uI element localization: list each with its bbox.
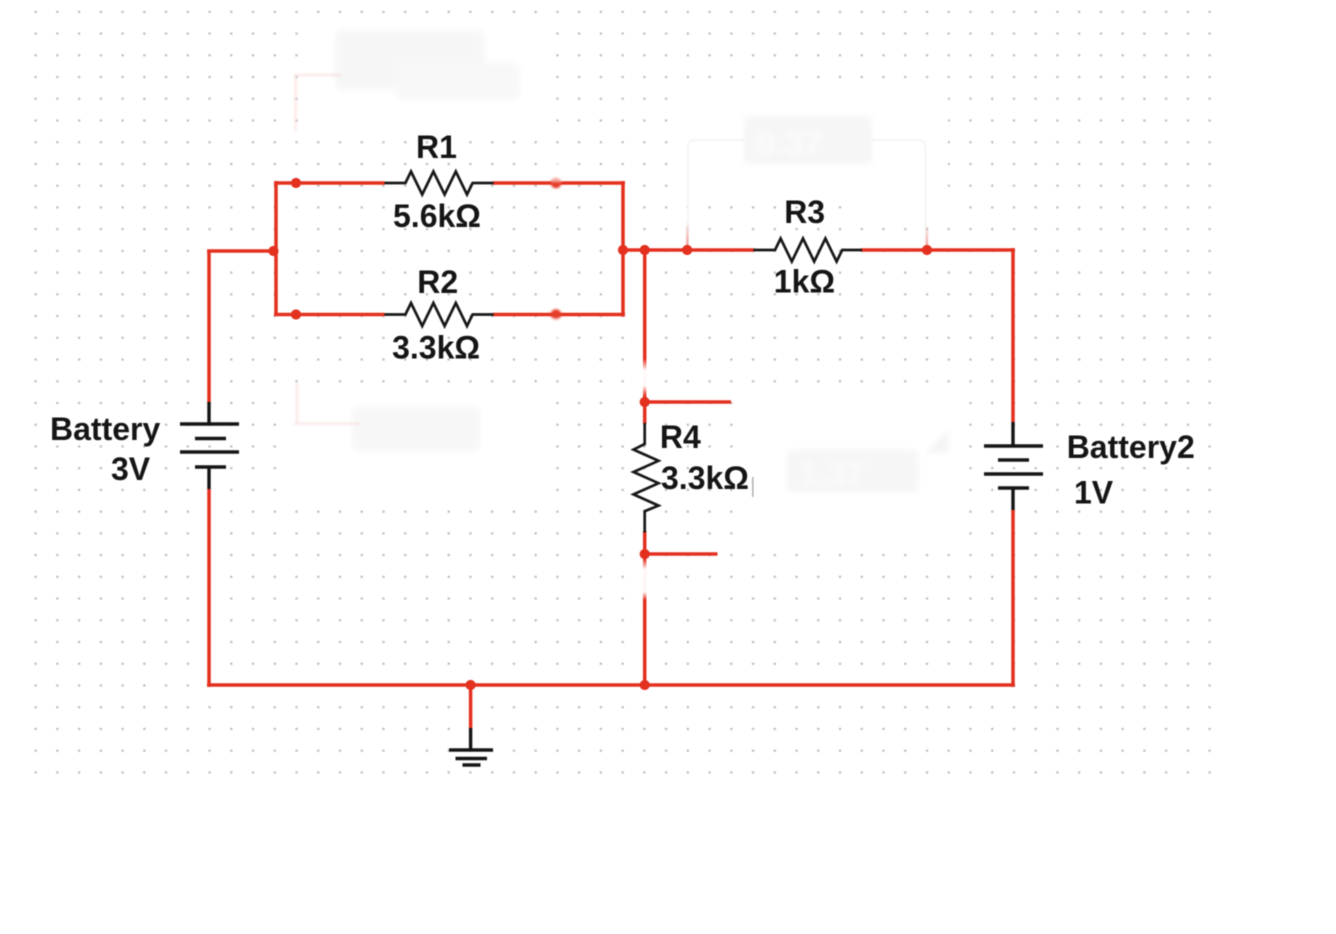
faded junction node R2 right	[551, 309, 562, 320]
ghost smudge 0.37 label	[744, 116, 872, 164]
wire bottom rail	[207, 683, 1015, 687]
ghost smudge mid-left	[352, 406, 480, 452]
erased-wire white streak below node R2 right	[551, 318, 562, 352]
wire R3 right to battery2	[861, 248, 1015, 252]
ground symbol	[449, 728, 493, 765]
resistor R2 body	[385, 303, 494, 326]
battery V1 symbol	[180, 402, 239, 489]
resistor R3 body	[753, 239, 862, 262]
ghost pink wire remnant top-left	[294, 75, 341, 131]
svg-text:1kΩ: 1kΩ	[774, 264, 835, 300]
resistor R1 body	[385, 172, 494, 195]
wire ground stub	[469, 685, 473, 729]
wire R1 left	[274, 181, 384, 185]
wire R4 lower red segment	[643, 531, 647, 554]
ghost wire stub above node right	[926, 224, 928, 246]
erased patch mid-left (covers grid)	[284, 390, 556, 502]
wire R4 top vertical	[643, 250, 647, 424]
svg-text:R3: R3	[784, 194, 825, 230]
wire R4 top stub right	[645, 400, 731, 404]
wire parallel-right vertical	[621, 181, 625, 317]
svg-text:3.3kΩ: 3.3kΩ	[661, 460, 749, 496]
junction node R3 right	[922, 245, 932, 255]
wire middle node to R3	[623, 248, 754, 252]
junction node parallel right	[618, 245, 628, 255]
wire battery1 top vertical	[207, 251, 211, 403]
ghost pink wire remnant mid-left	[294, 383, 360, 424]
svg-text:1.37: 1.37	[799, 455, 865, 493]
wire R4 bottom stub right	[645, 552, 718, 556]
fade on R4 top wire	[642, 359, 648, 396]
faded junction node R1 right	[551, 178, 562, 189]
svg-text:5.6kΩ: 5.6kΩ	[393, 198, 481, 234]
wire battery2 top vertical	[1011, 248, 1015, 422]
junction node R4 top branch	[640, 245, 650, 255]
junction node bottom mid	[640, 680, 650, 690]
ghost smudge mid-right 1.37 label	[787, 430, 948, 493]
svg-text:1V: 1V	[1074, 475, 1114, 511]
svg-text:Battery2: Battery2	[1067, 429, 1195, 465]
junction node R2 left	[291, 309, 301, 319]
wire R1 right	[493, 181, 625, 185]
text cursor mark after R4 value	[752, 477, 754, 497]
ghost wire stub above node mid	[686, 221, 689, 246]
junction node battery1-parallel	[268, 246, 278, 256]
ghost smudge top-left erased label	[335, 30, 520, 100]
svg-text:R4: R4	[660, 419, 701, 455]
wire R2 right	[493, 313, 625, 317]
erased patch mid-right (covers grid)	[738, 396, 966, 536]
svg-text:3.3kΩ: 3.3kΩ	[392, 330, 480, 366]
erased patch top-left (covers grid)	[302, 20, 550, 128]
erased-wire white streak over node R1 right	[551, 146, 562, 182]
wire R4 bottom vertical	[643, 554, 647, 685]
junction node R1 left	[291, 178, 301, 188]
junction node R4 top	[640, 397, 650, 407]
svg-text:0.37: 0.37	[756, 125, 822, 163]
resistor R4 body	[634, 423, 659, 533]
junction node mid wire	[682, 245, 692, 255]
svg-text:3V: 3V	[111, 451, 151, 487]
wire battery1 bottom vertical	[207, 489, 211, 687]
junction node R4 bottom	[640, 549, 650, 559]
wire battery2 bottom vertical	[1011, 510, 1015, 687]
fade on R4 bottom wire	[642, 559, 648, 600]
svg-text:R1: R1	[416, 129, 457, 165]
wire battery1 to parallel node	[207, 249, 276, 253]
svg-text:R2: R2	[417, 264, 458, 300]
battery V2 symbol	[984, 422, 1043, 510]
wire parallel-left vertical	[274, 181, 278, 316]
ghost probe box outline above R3	[688, 140, 926, 247]
wire R2 left	[274, 313, 384, 317]
erased patch above R3 (covers grid)	[678, 86, 948, 206]
junction node ground	[466, 680, 476, 690]
grid of dots (decorative)	[25, 2, 1221, 783]
svg-text:Battery: Battery	[50, 411, 160, 447]
